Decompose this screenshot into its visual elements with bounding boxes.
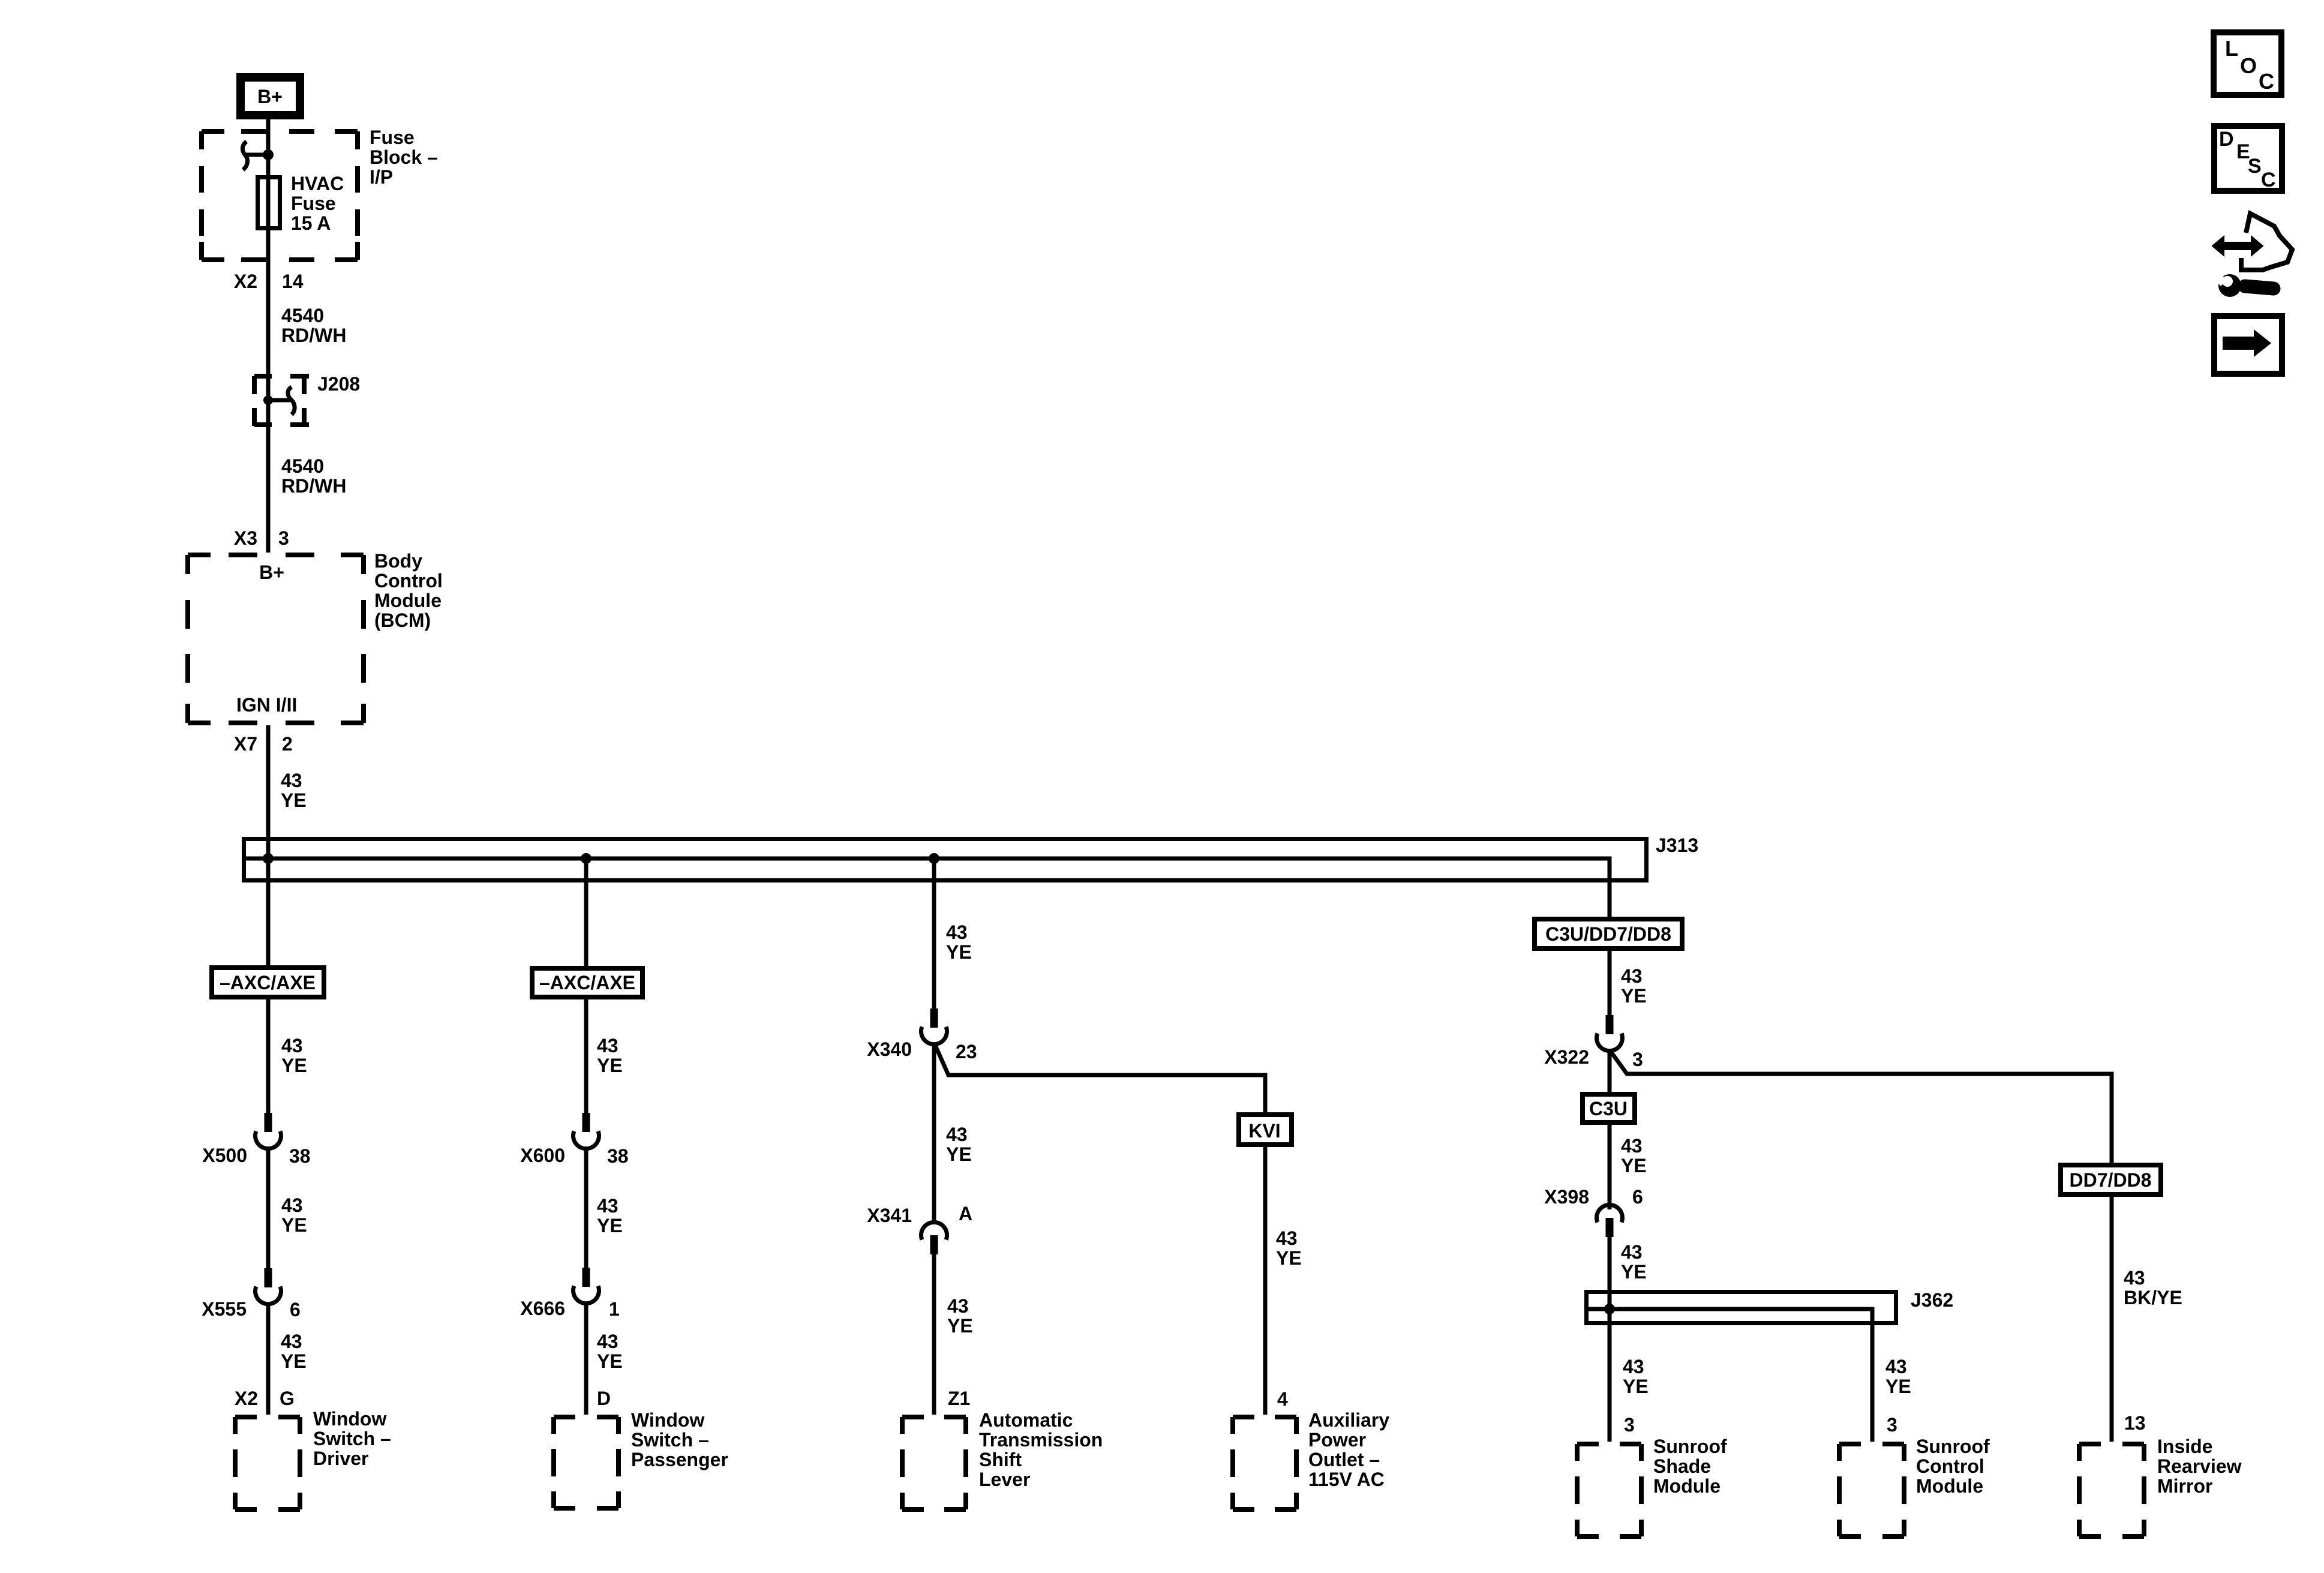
svg-text:G: G [280, 1388, 295, 1409]
svg-text:IGN I/II: IGN I/II [236, 694, 297, 716]
svg-text:Switch –: Switch – [313, 1428, 391, 1449]
svg-text:X555: X555 [202, 1298, 247, 1320]
svg-text:Shift: Shift [979, 1449, 1022, 1470]
svg-text:Fuse: Fuse [370, 127, 415, 148]
svg-text:Window: Window [631, 1409, 704, 1431]
wire: KVI to auxiliary power outlet (43 YE) [1263, 1147, 1268, 1415]
wire: -AXC/AXE to X600 (43 YE) [584, 999, 588, 1114]
svg-text:YE: YE [281, 789, 307, 811]
svg-text:3: 3 [1887, 1414, 1897, 1436]
svg-text:C: C [2259, 69, 2274, 94]
svg-text:4540: 4540 [281, 305, 324, 326]
svg-text:X2: X2 [234, 271, 257, 292]
svg-text:Module: Module [374, 590, 442, 611]
svg-text:–AXC/AXE: –AXC/AXE [220, 972, 316, 993]
svg-text:–AXC/AXE: –AXC/AXE [539, 972, 635, 993]
fuse designator box –AXC/AXE (driver) [212, 968, 324, 997]
connector X398 symbol [1597, 1205, 1623, 1222]
svg-text:Sunroof: Sunroof [1916, 1436, 1990, 1457]
svg-text:43: 43 [1276, 1227, 1298, 1249]
svg-text:X666: X666 [520, 1298, 565, 1319]
svg-text:X322: X322 [1544, 1046, 1589, 1068]
svg-text:YE: YE [281, 1350, 307, 1372]
svg-text:RD/WH: RD/WH [281, 325, 346, 346]
svg-text:J208: J208 [317, 373, 360, 395]
connector X500 symbol [265, 1113, 272, 1132]
svg-text:X3: X3 [234, 527, 257, 549]
svg-text:Z1: Z1 [948, 1388, 970, 1409]
svg-text:YE: YE [597, 1055, 623, 1076]
wire: C3U to X398 (43 YE) [1608, 1125, 1612, 1209]
svg-text:B+: B+ [259, 562, 284, 583]
svg-text:(BCM): (BCM) [374, 610, 431, 631]
svg-text:Transmission: Transmission [979, 1429, 1103, 1451]
svg-text:C3U/DD7/DD8: C3U/DD7/DD8 [1545, 923, 1671, 945]
svg-text:X7: X7 [234, 733, 257, 755]
svg-text:YE: YE [1621, 985, 1647, 1007]
svg-text:Power: Power [1308, 1429, 1366, 1451]
svg-text:Module: Module [1653, 1475, 1721, 1497]
svg-text:43: 43 [281, 1331, 302, 1352]
svg-text:43: 43 [597, 1331, 618, 1352]
connector X341 symbol [921, 1222, 947, 1239]
svg-text:2: 2 [282, 733, 293, 755]
wire: X666 to window switch passenger (43 YE) [584, 1303, 588, 1415]
icon box DESC [2214, 126, 2282, 191]
connector X322 symbol [1606, 1015, 1614, 1034]
svg-text:HVAC: HVAC [291, 173, 344, 194]
wire: X340 down to X341 (43 YE) [932, 1044, 936, 1221]
fuse block I/P dashed outline [202, 131, 358, 260]
svg-text:Passenger: Passenger [631, 1449, 728, 1470]
svg-text:X2: X2 [235, 1388, 258, 1409]
wire: J313 to fuse -AXC/AXE (passenger) [584, 858, 588, 966]
svg-text:D: D [597, 1388, 611, 1409]
wire: X500 to X555 (43 YE) [266, 1148, 271, 1269]
svg-text:B+: B+ [257, 86, 283, 107]
wire: X555 to window switch driver (43 YE) [266, 1304, 271, 1415]
svg-text:Outlet –: Outlet – [1308, 1449, 1380, 1470]
svg-text:23: 23 [956, 1041, 977, 1062]
svg-text:3: 3 [1632, 1049, 1643, 1070]
svg-text:14: 14 [282, 271, 304, 292]
splice pack J313 outline [244, 839, 1647, 881]
svg-text:X341: X341 [867, 1205, 912, 1226]
svg-text:BK/YE: BK/YE [2124, 1287, 2182, 1308]
svg-text:J362: J362 [1911, 1289, 1953, 1311]
svg-text:Driver: Driver [313, 1448, 369, 1469]
svg-text:Fuse: Fuse [291, 193, 336, 214]
junction dot J313 / window switch passenger branch [581, 853, 591, 864]
svg-text:D: D [2219, 128, 2234, 151]
svg-text:4: 4 [1277, 1388, 1288, 1410]
svg-text:Block –: Block – [370, 146, 438, 168]
fuse designator box KVI [1239, 1115, 1292, 1145]
splice pack J362 outline [1587, 1292, 1896, 1323]
wire: -AXC/AXE to X500 (43 YE) [266, 999, 271, 1114]
svg-text:O: O [2240, 53, 2257, 78]
wire: X341 to shift lever (43 YE) [932, 1254, 936, 1415]
svg-text:43: 43 [947, 1295, 969, 1317]
junction dot J313 / window switch driver branch [263, 853, 274, 864]
fuse designator box C3U/DD7/DD8 [1535, 919, 1682, 948]
svg-text:YE: YE [947, 1315, 973, 1337]
svg-text:15 A: 15 A [291, 212, 331, 234]
svg-text:3: 3 [1624, 1414, 1635, 1436]
svg-text:Lever: Lever [979, 1469, 1030, 1490]
svg-text:38: 38 [607, 1145, 629, 1167]
fuse HVAC Fuse 15 A symbol [258, 178, 280, 229]
module Automatic Transmission Shift Lever dashed outline [902, 1417, 966, 1509]
svg-text:C3U: C3U [1589, 1098, 1628, 1119]
svg-text:43: 43 [597, 1195, 618, 1217]
splice J208 dashed outline [254, 376, 309, 426]
svg-text:43: 43 [1621, 1135, 1643, 1157]
svg-text:L: L [2225, 36, 2238, 61]
svg-text:I/P: I/P [370, 166, 393, 188]
svg-text:6: 6 [1632, 1186, 1643, 1208]
module Body Control Module (BCM) dashed outline [188, 555, 364, 723]
svg-text:115V AC: 115V AC [1308, 1469, 1385, 1490]
svg-text:1: 1 [609, 1298, 620, 1320]
svg-text:S: S [2248, 155, 2262, 178]
connector X555 symbol [265, 1268, 272, 1287]
svg-text:YE: YE [1276, 1247, 1302, 1269]
wire: X398 to J362 and sunroof shade module (43 YE) [1608, 1237, 1612, 1442]
svg-text:YE: YE [597, 1215, 623, 1236]
wire: branch X322 to DD7/DD8 (diagonal + horizontal) [1610, 1050, 2112, 1163]
svg-text:YE: YE [1623, 1376, 1649, 1397]
wire: BCM IGN I/II to splice pack J313 (43 YE) [266, 725, 271, 861]
svg-text:RD/WH: RD/WH [281, 475, 346, 497]
wire: X322 down to C3U box [1608, 1050, 1612, 1092]
svg-text:DD7/DD8: DD7/DD8 [2070, 1169, 2152, 1191]
icon vehicle outline with double arrow and wrench [2212, 236, 2263, 256]
svg-text:Body: Body [374, 550, 422, 572]
svg-text:YE: YE [1621, 1261, 1647, 1283]
svg-text:C: C [2261, 169, 2276, 191]
svg-text:Rearview: Rearview [2157, 1455, 2242, 1477]
module Auxiliary Power Outlet – 115V AC dashed outline [1233, 1417, 1296, 1509]
wire: branch X340 to KVI fuse (diagonal + horizontal) [934, 1043, 1265, 1112]
svg-text:X600: X600 [520, 1145, 565, 1166]
svg-text:43: 43 [281, 1035, 303, 1056]
fuse designator box C3U [1583, 1094, 1635, 1122]
module Inside Rearview Mirror dashed outline [2079, 1444, 2144, 1536]
svg-text:13: 13 [2124, 1412, 2146, 1434]
junction dot J313 / shift lever branch [929, 853, 939, 864]
svg-text:YE: YE [1621, 1155, 1647, 1176]
svg-text:YE: YE [946, 941, 972, 963]
svg-text:43: 43 [1623, 1356, 1644, 1377]
svg-text:YE: YE [946, 1143, 972, 1165]
svg-text:Mirror: Mirror [2157, 1475, 2212, 1497]
svg-text:43: 43 [1885, 1356, 1907, 1377]
module Sunroof Shade Module dashed outline [1577, 1444, 1641, 1536]
svg-text:4540: 4540 [281, 455, 324, 477]
svg-text:43: 43 [2124, 1267, 2145, 1289]
splice J208 symbol (dot and hook) [263, 395, 273, 405]
fuse block internal splice dot [263, 149, 274, 160]
svg-text:YE: YE [281, 1214, 307, 1236]
wire: X600 to X666 (43 YE) [584, 1148, 588, 1269]
wire: J313 to X340 (43 YE) [932, 858, 936, 1010]
svg-text:Inside: Inside [2157, 1436, 2212, 1457]
splice pack J313 bus conductor [244, 858, 1610, 919]
connector X340 symbol [930, 1008, 938, 1028]
power feed symbol B+ (battery positive) [241, 77, 300, 115]
svg-text:J313: J313 [1656, 834, 1698, 856]
svg-text:YE: YE [281, 1055, 307, 1076]
splice pack J362 bus conductor [1587, 1309, 1872, 1442]
svg-text:Auxiliary: Auxiliary [1308, 1409, 1389, 1431]
icon box LOC [2214, 32, 2281, 95]
svg-text:43: 43 [281, 1194, 303, 1216]
svg-text:YE: YE [1885, 1376, 1911, 1397]
svg-text:A: A [959, 1203, 972, 1224]
svg-text:6: 6 [290, 1299, 301, 1320]
svg-text:Automatic: Automatic [979, 1409, 1073, 1431]
svg-text:38: 38 [289, 1145, 311, 1167]
svg-text:43: 43 [946, 921, 968, 943]
connector X600 symbol [582, 1113, 590, 1132]
wire: J313 to fuse -AXC/AXE (driver) [266, 858, 271, 965]
svg-text:Sunroof: Sunroof [1653, 1436, 1727, 1457]
svg-text:X500: X500 [202, 1145, 247, 1166]
svg-text:YE: YE [597, 1350, 623, 1372]
svg-text:3: 3 [278, 527, 289, 549]
svg-text:KVI: KVI [1248, 1120, 1280, 1142]
fuse block internal splice branch with hook [245, 153, 268, 157]
svg-text:Shade: Shade [1653, 1455, 1711, 1477]
wire: DD7/DD8 to inside rearview mirror (43 BK/YE) [2110, 1197, 2114, 1442]
svg-text:43: 43 [1621, 1241, 1643, 1263]
svg-text:43: 43 [281, 770, 302, 791]
wire: B+ feed through HVAC fuse down to BCM (4540 RD/WH) [266, 119, 271, 553]
svg-text:Control: Control [374, 570, 443, 592]
module Window Switch – Passenger dashed outline [554, 1417, 618, 1508]
svg-text:43: 43 [1621, 965, 1643, 987]
connector X666 symbol [582, 1268, 590, 1287]
svg-text:43: 43 [946, 1124, 968, 1145]
icon box forward arrow [2214, 316, 2282, 374]
svg-text:43: 43 [597, 1035, 618, 1056]
module Sunroof Control Module dashed outline [1839, 1444, 1904, 1536]
fuse designator box DD7/DD8 [2061, 1165, 2161, 1194]
junction dot J362 / sunroof shade branch [1604, 1304, 1615, 1314]
wire: C3U/DD7/DD8 to X322 (43 YE) [1608, 951, 1612, 1016]
svg-text:Window: Window [313, 1408, 386, 1430]
module Window Switch – Driver dashed outline [235, 1417, 300, 1509]
svg-text:Switch –: Switch – [631, 1429, 709, 1451]
svg-text:Module: Module [1916, 1475, 1983, 1497]
svg-text:X340: X340 [867, 1038, 912, 1060]
svg-text:X398: X398 [1544, 1186, 1589, 1208]
svg-text:Control: Control [1916, 1455, 1984, 1477]
fuse designator box –AXC/AXE (passenger) [532, 968, 642, 997]
